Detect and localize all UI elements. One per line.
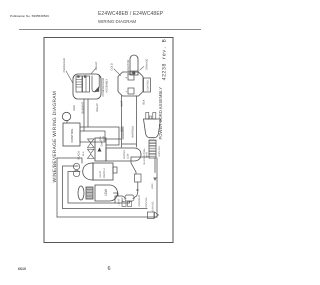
overload: [76, 76, 82, 92]
svg-text:CAPACITOR: CAPACITOR: [127, 59, 130, 74]
compressor assembly: [73, 74, 101, 99]
power cord hatch band: [149, 140, 156, 158]
fan loop box: [80, 131, 105, 142]
svg-text:CONTROL: CONTROL: [70, 128, 74, 143]
plug ground pin: [150, 116, 152, 119]
footer code: [18, 267, 26, 271]
footer page number: [108, 266, 111, 272]
bracket connector pair: [122, 202, 126, 207]
capacitor capsule: [130, 55, 138, 75]
winding: [92, 76, 99, 92]
svg-text:15W: 15W: [104, 188, 108, 196]
wire thermostat to junction: [80, 127, 119, 145]
svg-text:-1: -1: [125, 90, 128, 93]
wire relay octagon leads: [106, 96, 137, 147]
svg-text:WHT: WHT: [121, 100, 124, 106]
svg-text:115V: 115V: [127, 153, 130, 159]
connector box inline: [135, 174, 142, 182]
wire power cord branch: [114, 157, 150, 203]
header title WIRING DIAGRAM: [98, 19, 136, 24]
svg-text:GRN/WHT: GRN/WHT: [138, 195, 141, 207]
svg-text:RED: RED: [73, 105, 76, 111]
lamp holder box: [93, 163, 113, 180]
svg-text:ASSEMBLY: ASSEMBLY: [106, 78, 109, 92]
svg-text:GRN/YEL: GRN/YEL: [145, 196, 148, 207]
svg-text:POWER CORD ASSEMBLY: POWER CORD ASSEMBLY: [158, 87, 163, 140]
light bulb base: [86, 187, 93, 199]
wire drop to fan motor: [57, 158, 82, 163]
thermostat temp control box: [63, 123, 80, 146]
svg-text:EVAP: EVAP: [101, 140, 104, 147]
svg-text:COLD: COLD: [111, 63, 114, 70]
wire bottom rail: [156, 158, 158, 217]
wire nut connector: [125, 195, 134, 201]
wire compressor leads: [84, 99, 88, 131]
lamp holder tab: [113, 167, 117, 173]
relay octagon: [118, 72, 143, 96]
header model numbers: [98, 11, 163, 17]
header publication number: [10, 14, 49, 18]
svg-text:SWITCH: SWITCH: [103, 168, 106, 178]
svg-text:WHT/BLU: WHT/BLU: [132, 126, 135, 138]
wire left rail: [57, 216, 157, 218]
svg-text:OVERLOAD: OVERLOAD: [63, 58, 66, 73]
svg-text:CONTROL: CONTROL: [147, 79, 150, 91]
svg-text:BLK: BLK: [82, 151, 85, 156]
wire third rail path3 light return: [68, 172, 130, 204]
plug prong 2: [153, 113, 156, 120]
svg-text:15W: 15W: [121, 197, 124, 203]
bowtie connector bottom left: [148, 212, 155, 219]
svg-text:-2: -2: [125, 76, 128, 79]
wire second rail path2: [63, 166, 148, 209]
svg-text:WHT: WHT: [145, 152, 148, 158]
ground wire arrow: [154, 158, 156, 173]
power plug dome: [144, 119, 161, 138]
svg-text:GRN/YEL: GRN/YEL: [152, 200, 155, 211]
svg-text:GRN-YEL: GRN-YEL: [158, 145, 161, 156]
svg-text:42238 rev. B: 42238 rev. B: [162, 39, 168, 81]
light bulb oval: [78, 186, 84, 200]
svg-text:BLK: BLK: [143, 99, 146, 104]
svg-text:BLACK: BLACK: [78, 151, 81, 160]
lamp holder dome: [83, 163, 93, 180]
junction dot: [136, 189, 138, 191]
diagram outer frame: [44, 38, 173, 243]
plug prong 1: [146, 113, 149, 120]
svg-text:GRN: GRN: [151, 183, 154, 189]
terminal 1: [128, 88, 134, 94]
connector circles lamp: [73, 163, 79, 169]
light bulb capsule: [95, 185, 118, 201]
small control box below octagon: [144, 78, 151, 92]
wire top rail: [56, 158, 58, 217]
svg-text:BRN: BRN: [121, 126, 124, 132]
fan motor box: [95, 138, 106, 161]
header rule: [19, 28, 201, 31]
svg-text:LIGHT: LIGHT: [99, 170, 102, 178]
terminal 2: [128, 74, 134, 80]
svg-text:BLK/WHT: BLK/WHT: [82, 102, 85, 114]
svg-text:ORANGE: ORANGE: [146, 58, 149, 70]
svg-text:RELAY: RELAY: [96, 103, 99, 112]
relay inside: [83, 76, 90, 92]
fan blades: [88, 149, 95, 158]
fan motor capsule: [106, 148, 141, 161]
thermostat sensing bulb: [66, 121, 68, 124]
